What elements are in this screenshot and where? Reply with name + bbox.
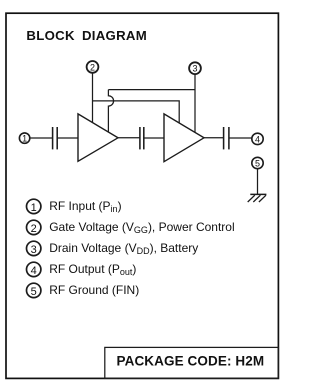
svg-text:1: 1 <box>31 202 37 214</box>
svg-text:RF Output (Pout): RF Output (Pout) <box>49 262 136 277</box>
svg-text:5: 5 <box>255 159 260 169</box>
package code box <box>105 347 279 378</box>
svg-text:2: 2 <box>90 62 95 72</box>
wire drain branch down with hop over gate wire <box>108 90 113 133</box>
svg-text:2: 2 <box>31 223 37 235</box>
node 1 (RF input terminal) <box>19 133 29 144</box>
wire node 3 down to amp2 drain <box>194 74 196 132</box>
wire C2 to amp2 input <box>144 137 164 139</box>
legend node 4 symbol <box>27 262 41 277</box>
svg-text:PACKAGE CODE: H2M: PACKAGE CODE: H2M <box>117 354 265 369</box>
node 3 (drain voltage terminal) <box>189 62 201 74</box>
svg-text:RF Input (Pin): RF Input (Pin) <box>49 199 121 214</box>
wire C3 to node 4 <box>229 137 252 139</box>
svg-text:RF Ground (FIN): RF Ground (FIN) <box>49 283 139 297</box>
op-amp A2 (second amplifier stage) <box>164 114 204 162</box>
legend node 2 symbol <box>27 220 41 235</box>
svg-text:1: 1 <box>22 134 27 144</box>
legend node 5 symbol <box>27 283 41 298</box>
wire node 5 to ground <box>257 169 259 195</box>
outer border frame of diagram <box>6 13 278 378</box>
svg-text:3: 3 <box>31 244 37 256</box>
svg-text:Drain Voltage (VDD), Battery: Drain Voltage (VDD), Battery <box>49 241 198 256</box>
node 2 (gate voltage terminal) <box>87 61 99 73</box>
capacitor C3 (output coupling) <box>224 127 229 149</box>
wire drain bias branch to amp1 <box>108 89 195 91</box>
wire gate bias branch to amp2 <box>93 101 180 124</box>
svg-text:4: 4 <box>31 265 37 277</box>
svg-text:4: 4 <box>255 134 260 144</box>
node 4 (RF output terminal) <box>252 133 263 144</box>
ground symbol <box>248 194 267 202</box>
svg-text:BLOCK DIAGRAM: BLOCK DIAGRAM <box>26 28 147 43</box>
wire amp2 output to C3 <box>204 137 224 139</box>
op-amp A1 (first amplifier stage) <box>78 114 118 161</box>
wire node1 to C1 <box>30 137 53 139</box>
svg-text:5: 5 <box>31 286 37 298</box>
wire amp1 output to C2 <box>118 137 140 139</box>
wire node 2 down to amp1 gate <box>92 73 94 123</box>
legend node 3 symbol <box>27 241 41 256</box>
svg-text:Gate Voltage (VGG), Power Cont: Gate Voltage (VGG), Power Control <box>49 220 234 235</box>
svg-text:3: 3 <box>192 64 197 74</box>
wire C1 to amp1 input <box>57 137 78 139</box>
capacitor C1 (input coupling) <box>53 127 58 149</box>
capacitor C2 (interstage coupling) <box>140 127 144 149</box>
node 5 (RF ground terminal) <box>252 157 263 168</box>
legend node 1 symbol <box>27 199 41 214</box>
